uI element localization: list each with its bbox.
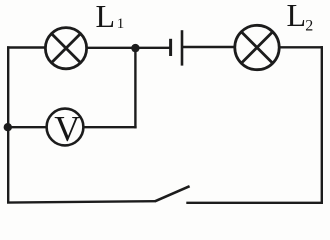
svg-text:V: V — [54, 109, 80, 149]
svg-text:L: L — [287, 0, 307, 33]
svg-text:1: 1 — [117, 16, 125, 32]
svg-text:L: L — [96, 0, 116, 34]
svg-text:2: 2 — [305, 18, 313, 35]
